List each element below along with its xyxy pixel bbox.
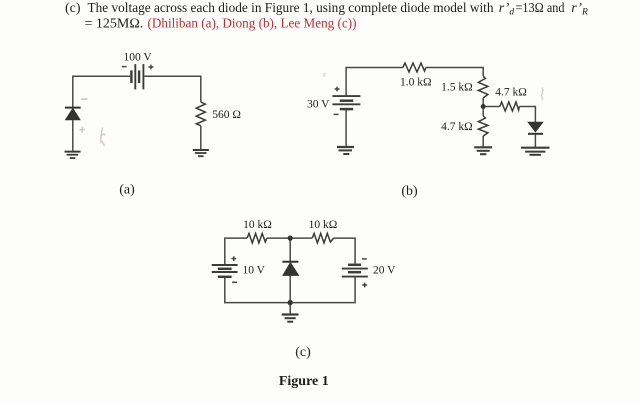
svg-text:10 V: 10 V xyxy=(243,265,266,277)
wire c top-left xyxy=(225,238,247,265)
ground b-battery xyxy=(337,147,354,154)
diode D-a xyxy=(65,108,81,120)
node dot c top xyxy=(288,236,293,241)
svg-text:(b): (b) xyxy=(401,184,418,199)
ground b-diode xyxy=(521,148,550,155)
battery 10 V plates xyxy=(212,265,238,277)
ground a-right xyxy=(193,150,209,156)
wire a top-left xyxy=(73,76,131,107)
wire c left-bottom rail xyxy=(225,277,355,303)
battery 10 V plus sign xyxy=(231,256,236,261)
battery 100 V plates xyxy=(131,64,143,89)
svg-text:Figure 1: Figure 1 xyxy=(279,374,329,389)
svg-text:10 kΩ: 10 kΩ xyxy=(243,219,272,231)
svg-text:The voltage across each diode: The voltage across each diode in Figure … xyxy=(88,1,494,16)
resistor 10 k left xyxy=(247,233,267,243)
battery 10 V minus sign xyxy=(232,281,237,283)
resistor 1.5 k vertical xyxy=(478,76,488,98)
wire a top-right xyxy=(144,76,201,102)
svg-text:= 125MΩ.: = 125MΩ. xyxy=(85,17,144,32)
svg-text:(c): (c) xyxy=(295,345,311,360)
wire b battery-top to resistor xyxy=(346,68,403,97)
ground b-resistor xyxy=(474,147,492,154)
svg-text:(a): (a) xyxy=(119,183,135,198)
svg-text:(c): (c) xyxy=(65,1,81,16)
svg-text:4.7 kΩ: 4.7 kΩ xyxy=(441,121,473,133)
wire b node to diode xyxy=(483,107,535,123)
svg-text:30 V: 30 V xyxy=(307,99,330,111)
pencil mark paren near diode b xyxy=(542,88,544,101)
wire c top-middle xyxy=(267,237,312,239)
svg-text:1.0 kΩ: 1.0 kΩ xyxy=(400,77,432,89)
node dot c bottom xyxy=(288,300,293,305)
svg-text:1.5 kΩ: 1.5 kΩ xyxy=(441,81,473,93)
battery 20 V plates xyxy=(342,265,368,277)
wire c node to diode xyxy=(289,238,291,261)
node dot b xyxy=(481,104,486,109)
battery 30 V minus sign xyxy=(334,113,339,115)
resistor 4.7 k horizontal xyxy=(500,102,520,111)
svg-text:=13Ω and: =13Ω and xyxy=(516,1,565,16)
battery 30 V plates xyxy=(332,96,360,109)
diode D-c xyxy=(282,262,298,276)
wire c ground stub xyxy=(289,303,291,314)
pencil scribble xyxy=(101,128,105,147)
pencil mark plus near diode xyxy=(80,126,85,132)
ground c xyxy=(282,315,299,322)
wire b 4.7k to ground xyxy=(482,136,484,147)
wire a diode-to-ground xyxy=(72,120,74,151)
svg-text:10 kΩ: 10 kΩ xyxy=(309,219,338,231)
wire b 1.5k to node to 4.7k xyxy=(482,98,484,116)
resistor 1.0 k horizontal xyxy=(403,63,426,72)
svg-text:4.7 kΩ: 4.7 kΩ xyxy=(495,87,527,99)
wire a resistor-to-ground xyxy=(200,126,202,150)
battery 20 V minus sign xyxy=(362,258,367,260)
wire b battery-bottom to ground xyxy=(345,109,347,146)
svg-text:20 V: 20 V xyxy=(373,265,396,277)
svg-text:(Dhiliban (a), Diong (b), Lee: (Dhiliban (a), Diong (b), Lee Meng (c)) xyxy=(148,17,357,32)
battery 30 V plus sign xyxy=(335,87,340,92)
battery 20 V plus sign xyxy=(362,283,367,288)
resistor 10 k right xyxy=(312,233,333,243)
battery 100 V minus sign xyxy=(122,66,127,68)
diode D-b xyxy=(528,122,543,134)
wire b resistor to corner down xyxy=(426,68,483,77)
wire c diode to bottom xyxy=(289,276,291,303)
battery 100 V plus sign xyxy=(149,65,154,70)
pencil mark minus near diode xyxy=(81,98,88,100)
pencil mark tick near battery b xyxy=(323,73,326,77)
svg-text:100 V: 100 V xyxy=(123,52,152,64)
svg-text:560 Ω: 560 Ω xyxy=(212,109,241,121)
resistor 560 ohm xyxy=(196,102,205,126)
wire c top-right xyxy=(334,238,356,265)
resistor 4.7 k vertical xyxy=(478,116,488,136)
ground a-left xyxy=(65,152,81,159)
wire b diode to ground xyxy=(534,134,536,147)
